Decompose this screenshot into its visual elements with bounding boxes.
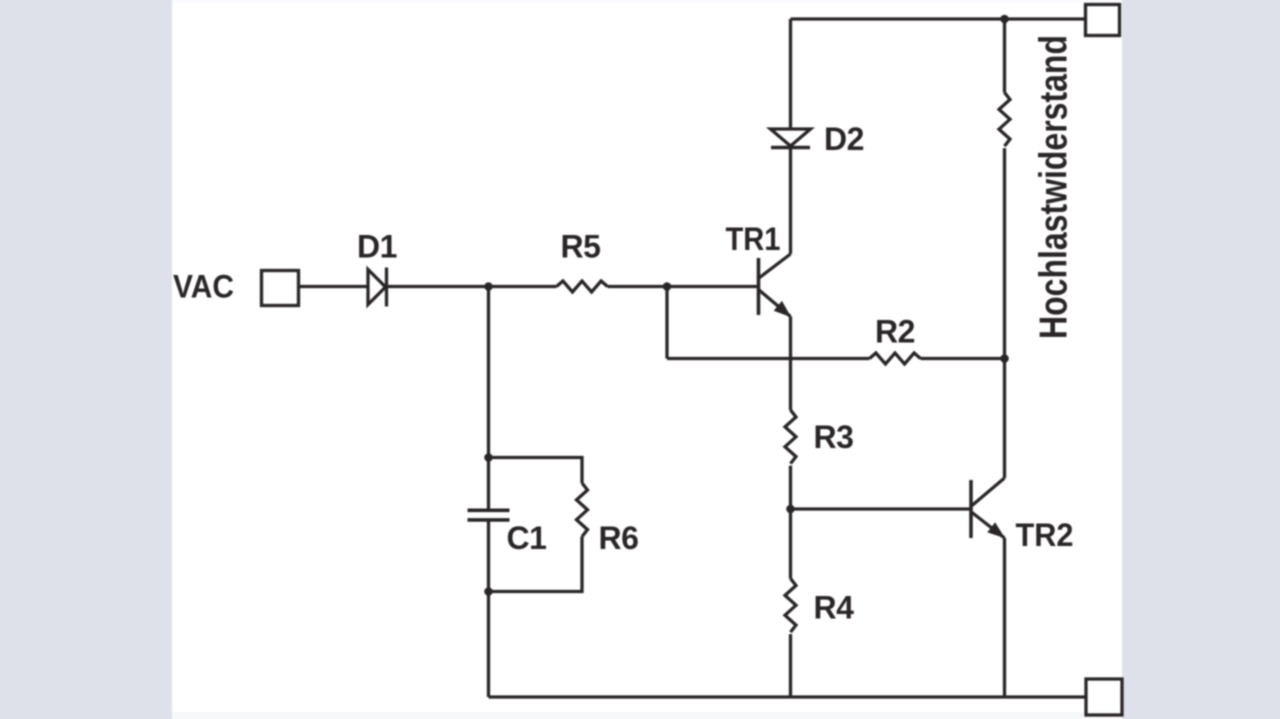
wire feedback drop from R5 junction — [665, 287, 668, 359]
transistor TR2 collector diagonal — [972, 478, 1005, 506]
terminal square bottom right — [1086, 679, 1122, 715]
diode D1 triangle — [368, 270, 386, 305]
diode D2 cathode bar — [771, 146, 810, 149]
transistor TR1 emitter arrowhead — [775, 302, 790, 315]
resistor R2 — [870, 353, 921, 364]
wire R4 down to bottom rail — [789, 634, 792, 697]
wire TR2 collector up to R2 junction — [1003, 359, 1006, 479]
svg-text:R3: R3 — [814, 419, 854, 455]
resistor Hochlastwiderstand — [999, 93, 1010, 147]
wire TR1 collector up to D2 cathode — [789, 149, 792, 254]
faint top strip — [172, 0, 1122, 3]
transistor TR2 base bar — [969, 480, 973, 538]
wire C1 bottom plate down to bottom rail — [487, 522, 490, 698]
transistor TR1 emitter diagonal — [759, 290, 791, 317]
transistor TR1 collector diagonal — [759, 254, 791, 278]
resistor R5 — [557, 281, 608, 292]
faint bottom strip — [172, 712, 1122, 719]
wire TR2 base — [791, 507, 970, 510]
svg-text:C1: C1 — [507, 520, 547, 556]
resistor R6 — [577, 483, 588, 537]
right gray margin — [1122, 0, 1280, 719]
wire feedback horizontal to R2 — [667, 357, 870, 360]
node junction C1/R6 bottom — [484, 587, 493, 596]
wire left vertical down to C1 top plate — [487, 287, 490, 509]
left gray margin — [0, 0, 172, 719]
node junction R2 / load line — [1000, 354, 1009, 363]
wire load resistor down to R2 junction — [1003, 148, 1006, 358]
diode D1 cathode bar — [385, 268, 388, 307]
wire load line from top junction — [1003, 19, 1006, 93]
svg-text:R2: R2 — [875, 314, 915, 350]
wire D1 cathode to R5 — [387, 285, 557, 288]
transistor TR1 base bar — [757, 258, 761, 315]
svg-text:R5: R5 — [561, 229, 601, 265]
diode D2 triangle — [771, 129, 811, 146]
wire TR1 emitter down to R3 — [789, 317, 792, 411]
svg-text:D2: D2 — [824, 121, 864, 157]
transistor TR2 emitter arrowhead — [989, 524, 1004, 537]
wire VAC square to D1 anode — [299, 285, 369, 288]
svg-text:R6: R6 — [599, 520, 639, 556]
terminal square VAC input — [262, 271, 299, 306]
node junction D1 / C1 branch — [484, 282, 493, 291]
capacitor C1 top plate — [468, 508, 510, 512]
node junction C1/R6 top — [484, 453, 493, 462]
wire R2 to load line — [921, 357, 1005, 360]
wire R6 top branch — [489, 458, 583, 484]
wire R5 to TR1 base — [608, 285, 758, 288]
wire bottom rail — [489, 695, 1087, 698]
wire TR2 emitter down to bottom rail — [1003, 538, 1006, 697]
node junction R5 / feedback branch — [663, 282, 672, 291]
resistor R4 — [785, 579, 796, 633]
svg-text:Hochlastwiderstand: Hochlastwiderstand — [1033, 35, 1076, 339]
svg-text:TR1: TR1 — [726, 221, 781, 257]
resistor R3 — [785, 410, 796, 464]
node junction top rail / load resistor — [1000, 15, 1009, 24]
wire R6 bottom branch — [489, 537, 583, 592]
terminal square top right — [1086, 5, 1120, 36]
capacitor C1 bottom plate — [468, 518, 510, 522]
svg-text:TR2: TR2 — [1016, 517, 1074, 553]
wire D2 anode up to top rail — [789, 19, 792, 129]
transistor TR2 emitter diagonal — [972, 513, 1005, 539]
svg-text:VAC: VAC — [173, 269, 234, 305]
node junction R3/R4/TR2 base — [786, 505, 795, 514]
svg-text:D1: D1 — [357, 229, 397, 265]
wire top rail — [791, 17, 1085, 20]
wire R3 to TR2 base junction — [789, 466, 792, 579]
svg-text:R4: R4 — [814, 590, 855, 626]
